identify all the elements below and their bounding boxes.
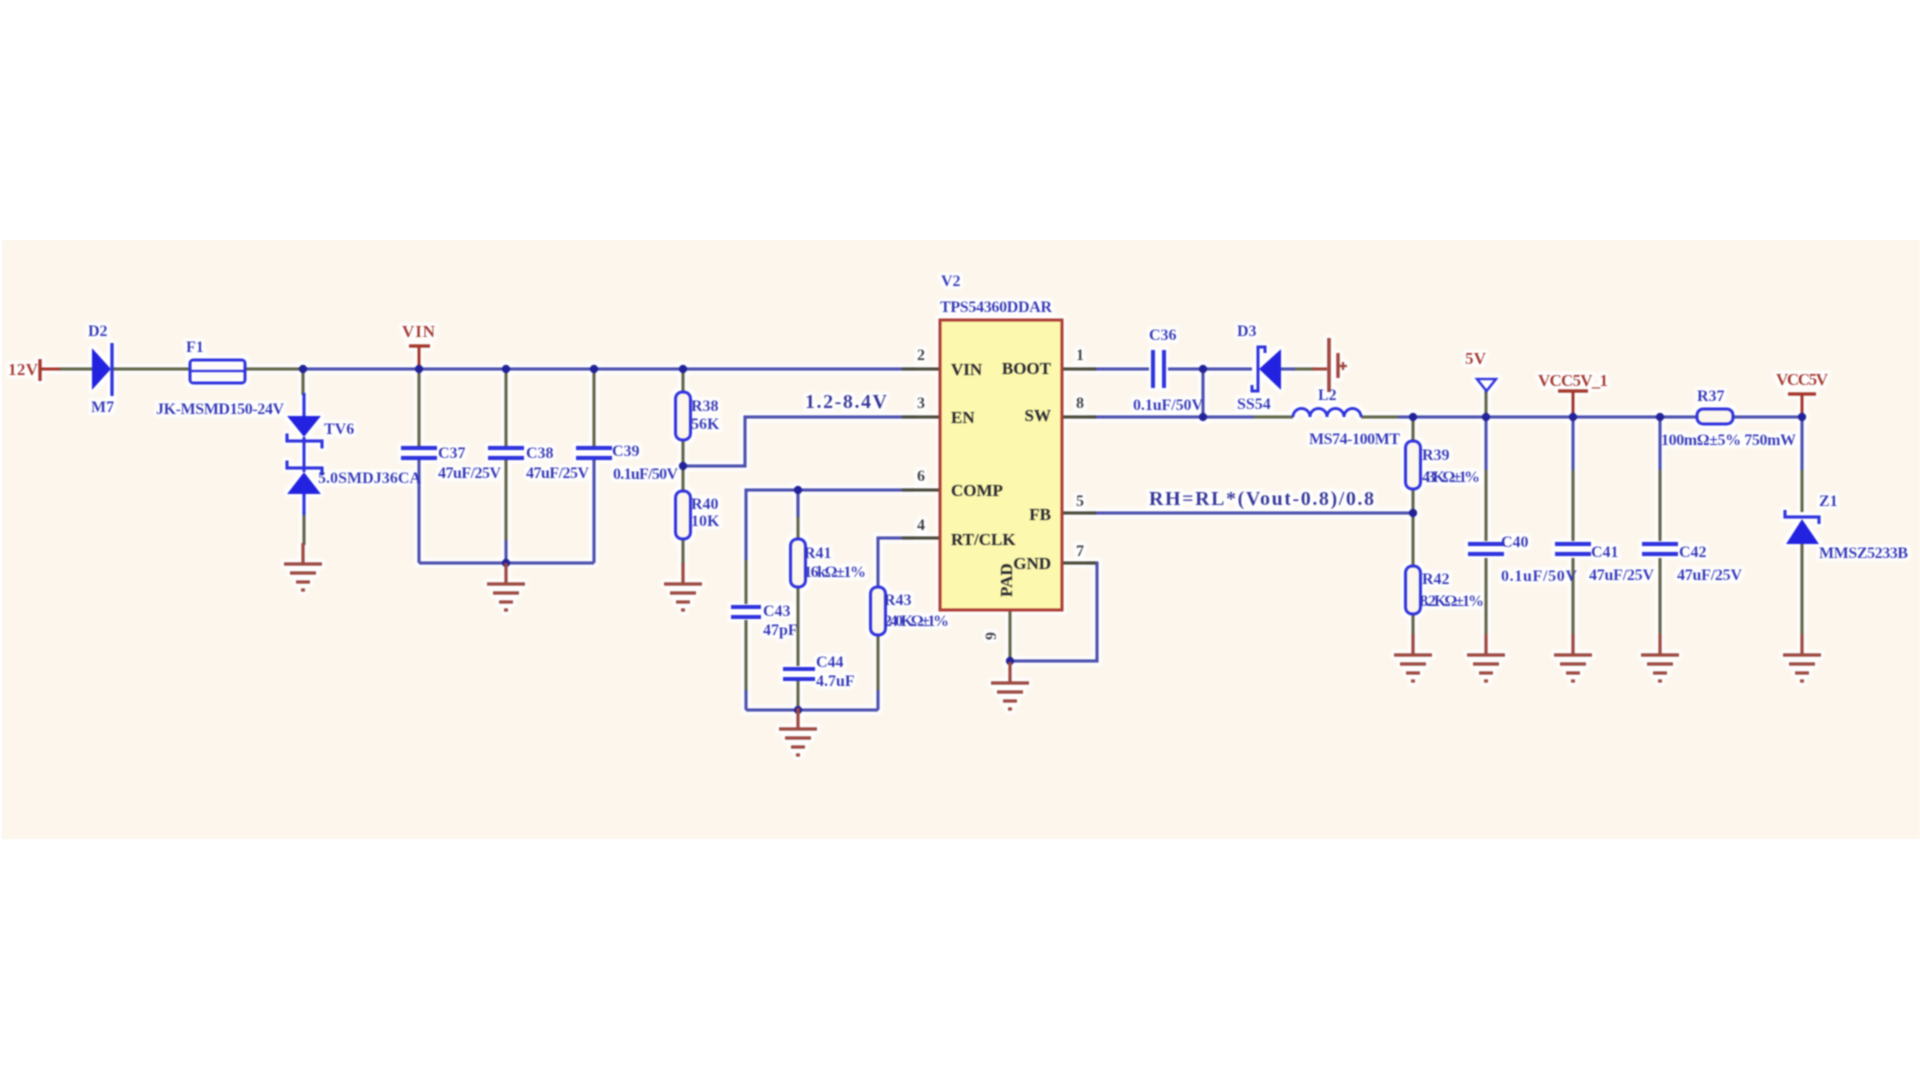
svg-text:0.1uF/50V: 0.1uF/50V <box>1133 397 1203 414</box>
svg-text:4: 4 <box>917 517 925 534</box>
svg-text:Z1: Z1 <box>1819 493 1838 510</box>
svg-text:L2: L2 <box>1318 387 1337 404</box>
svg-text:7: 7 <box>1076 543 1084 560</box>
svg-text:C40: C40 <box>1501 534 1529 551</box>
svg-text:R39: R39 <box>1422 447 1450 464</box>
svg-text:C36: C36 <box>1149 327 1177 344</box>
svg-text:8.2KΩ±1%: 8.2KΩ±1% <box>1420 593 1484 610</box>
svg-text:R37: R37 <box>1697 388 1725 405</box>
svg-text:M7: M7 <box>91 399 114 416</box>
svg-text:C42: C42 <box>1679 544 1707 561</box>
svg-text:C38: C38 <box>526 445 554 462</box>
svg-text:COMP: COMP <box>951 481 1003 500</box>
svg-text:MMSZ5233B: MMSZ5233B <box>1819 545 1908 562</box>
svg-text:47uF/25V: 47uF/25V <box>1589 567 1654 584</box>
svg-text:240KΩ±1%: 240KΩ±1% <box>884 613 949 630</box>
svg-text:6: 6 <box>917 468 925 485</box>
svg-text:D3: D3 <box>1237 323 1257 340</box>
svg-text:SS54: SS54 <box>1237 396 1271 413</box>
svg-text:5: 5 <box>1076 493 1084 510</box>
svg-text:12V: 12V <box>8 360 39 379</box>
svg-text:3: 3 <box>917 395 925 412</box>
svg-text:1: 1 <box>1076 347 1084 364</box>
svg-text:MS74-100MT: MS74-100MT <box>1309 431 1400 448</box>
svg-text:C39: C39 <box>612 443 640 460</box>
svg-text:4.7uF: 4.7uF <box>816 673 855 690</box>
svg-text:47uF/25V: 47uF/25V <box>1677 567 1742 584</box>
svg-text:C44: C44 <box>816 654 844 671</box>
svg-text:1.2-8.4V: 1.2-8.4V <box>805 391 888 413</box>
svg-text:9: 9 <box>983 632 1000 640</box>
svg-text:R40: R40 <box>691 496 719 513</box>
svg-text:5.0SMDJ36CA: 5.0SMDJ36CA <box>318 470 421 487</box>
svg-text:VCC5V_1: VCC5V_1 <box>1538 371 1608 390</box>
svg-text:8: 8 <box>1076 395 1084 412</box>
svg-text:JK-MSMD150-24V: JK-MSMD150-24V <box>156 401 284 418</box>
svg-text:TPS54360DDAR: TPS54360DDAR <box>940 299 1052 316</box>
svg-text:TV6: TV6 <box>324 421 354 438</box>
svg-text:RT/CLK: RT/CLK <box>951 530 1016 549</box>
svg-text:2: 2 <box>917 347 925 364</box>
svg-text:100mΩ±5% 750mW: 100mΩ±5% 750mW <box>1661 432 1796 449</box>
svg-text:C43: C43 <box>763 603 791 620</box>
svg-text:RH=RL*(Vout-0.8)/0.8: RH=RL*(Vout-0.8)/0.8 <box>1149 488 1374 510</box>
svg-text:VIN: VIN <box>951 360 983 379</box>
svg-text:PAD: PAD <box>997 563 1016 597</box>
svg-text:GND: GND <box>1013 554 1051 573</box>
svg-text:47pF: 47pF <box>763 622 798 639</box>
svg-text:SW: SW <box>1025 406 1051 425</box>
svg-text:D2: D2 <box>88 323 108 340</box>
svg-text:R38: R38 <box>691 398 719 415</box>
svg-text:EN: EN <box>951 408 975 427</box>
svg-text:43KΩ±1%: 43KΩ±1% <box>1422 469 1480 486</box>
svg-text:BOOT: BOOT <box>1002 359 1052 378</box>
svg-text:R41: R41 <box>804 545 832 562</box>
svg-text:F1: F1 <box>186 339 204 356</box>
svg-text:47uF/25V: 47uF/25V <box>438 465 501 482</box>
svg-text:56K: 56K <box>691 416 720 433</box>
svg-text:R43: R43 <box>884 592 912 609</box>
svg-text:5V: 5V <box>1465 349 1487 368</box>
svg-text:C37: C37 <box>438 445 466 462</box>
svg-text:16kΩ±1%: 16kΩ±1% <box>804 564 866 581</box>
svg-text:10K: 10K <box>691 513 720 530</box>
svg-text:0.1uF/50V: 0.1uF/50V <box>1501 568 1577 585</box>
svg-text:R42: R42 <box>1422 571 1450 588</box>
svg-text:V2: V2 <box>941 273 961 290</box>
svg-text:VCC5V: VCC5V <box>1776 370 1829 389</box>
svg-text:VIN: VIN <box>402 322 436 341</box>
svg-text:0.1uF/50V: 0.1uF/50V <box>613 466 678 483</box>
svg-text:FB: FB <box>1029 505 1051 524</box>
svg-text:C41: C41 <box>1591 544 1619 561</box>
svg-text:47uF/25V: 47uF/25V <box>526 465 589 482</box>
